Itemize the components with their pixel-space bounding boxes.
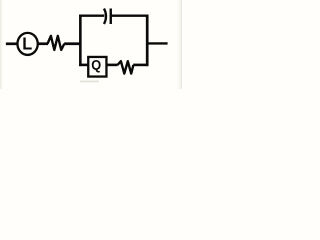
svg-text:Q: Q xyxy=(91,57,101,73)
svg-text:L: L xyxy=(22,33,32,54)
